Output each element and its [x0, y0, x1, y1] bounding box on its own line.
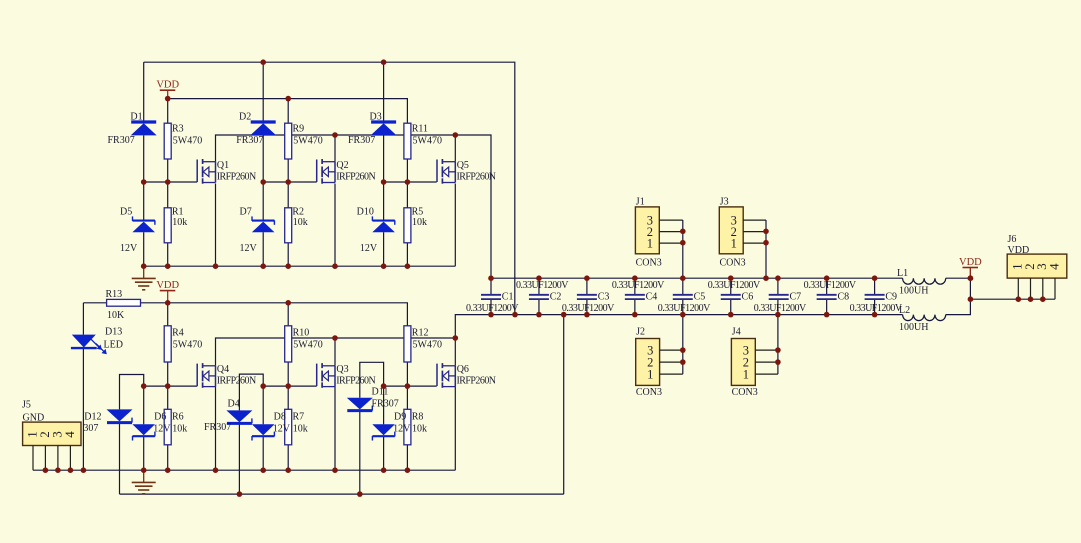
- svg-text:10k: 10k: [412, 424, 427, 435]
- svg-text:12V: 12V: [153, 424, 171, 435]
- junction at (970.4,278.2): [968, 275, 974, 281]
- svg-text:R11: R11: [412, 124, 428, 135]
- junction at (167.7,266.2): [165, 263, 171, 269]
- junction at (143.7,182.0): [141, 179, 147, 185]
- svg-text:D8: D8: [274, 412, 286, 423]
- junction at (1042.8,299.2): [1040, 296, 1046, 302]
- resistor R10 5W470: [285, 326, 323, 362]
- junction at (167.7,386.1): [165, 383, 171, 389]
- svg-text:D4: D4: [228, 399, 240, 410]
- junction at (143.7,266.2): [141, 263, 147, 269]
- junction at (383.6,182.0): [381, 179, 387, 185]
- junction at (407.4,470.2): [405, 467, 411, 473]
- wire top drain-diode rail with right drop to bottom cap rail: [144, 62, 515, 314]
- diode D2 FR307: [236, 112, 276, 147]
- svg-text:12V: 12V: [240, 243, 258, 254]
- wire 10k bottom stub: [287, 243, 289, 266]
- junction at (682.8,231.3): [680, 229, 686, 235]
- wire D12 cathode drop: [119, 423, 121, 495]
- junction at (539.0,278.2): [536, 275, 542, 281]
- svg-text:10K: 10K: [107, 310, 125, 321]
- label R7 10k: [293, 412, 308, 435]
- junction at (455.3,338.0): [453, 335, 459, 341]
- svg-text:0.33UF1200V: 0.33UF1200V: [516, 280, 569, 291]
- wire top cap rail after L1: [946, 277, 971, 279]
- junction at (288.2,386.1): [285, 383, 291, 389]
- junction at (263.2,386.1): [260, 383, 266, 389]
- diode D11 FR307: [347, 387, 399, 411]
- wire C6 stubs: [730, 278, 732, 314]
- wire D11 L-stub: [360, 362, 384, 397]
- wire C8 stubs: [826, 278, 828, 314]
- resistor R9 5W470: [285, 123, 323, 159]
- resistor R11 5W470: [404, 123, 442, 159]
- wire Q2 source stub: [334, 184, 336, 267]
- junction at (239.4,494.1): [237, 491, 243, 497]
- svg-text:0.33UF1200V: 0.33UF1200V: [612, 280, 665, 291]
- wire 5W470 bottom stub: [167, 362, 169, 386]
- wire Q5 source stub: [454, 184, 456, 267]
- ground upper bank: [132, 266, 156, 290]
- resistor R1 10k: [164, 207, 187, 243]
- svg-text:R5: R5: [412, 207, 424, 218]
- svg-text:Q3: Q3: [336, 364, 348, 375]
- capacitor C1 0.33UF1200V: [466, 292, 519, 315]
- junction at (539.0,314.6): [536, 312, 542, 318]
- svg-text:R8: R8: [412, 412, 424, 423]
- svg-text:R7: R7: [293, 412, 305, 423]
- connector J4 CON3: [731, 327, 778, 399]
- led D13: [71, 327, 123, 355]
- junction at (634.9,278.2): [632, 275, 638, 281]
- wire 10k top stub: [287, 182, 289, 208]
- junction at (491,314.6): [488, 312, 494, 318]
- wire D11 cathode drop: [359, 411, 361, 495]
- wire D2 cathode stub: [262, 62, 264, 121]
- zener D8 12V: [252, 412, 291, 441]
- mosfet Q2 IRFP260N: [317, 159, 376, 184]
- junction at (335.0,470.2): [332, 467, 338, 473]
- wire resistor bottom stub: [167, 159, 169, 182]
- svg-text:10k: 10k: [293, 424, 308, 435]
- wire C2 stubs: [538, 278, 540, 314]
- svg-text:FR307: FR307: [204, 422, 231, 433]
- wire zener top stub: [143, 182, 145, 221]
- wire D13 bottom to source row: [82, 348, 84, 470]
- svg-text:Q5: Q5: [457, 160, 469, 171]
- wire R4 top stub: [167, 303, 169, 326]
- junction at (335.0,135.0): [332, 132, 338, 138]
- wire zener bottom stub: [383, 232, 385, 266]
- svg-text:FR307: FR307: [372, 399, 399, 410]
- zener D7 12V: [240, 207, 275, 255]
- wire bottom cap rail: [455, 315, 902, 338]
- wire Q6 source stub: [454, 387, 456, 471]
- wire D12 L-stub: [120, 375, 144, 410]
- svg-text:Q2: Q2: [336, 160, 348, 171]
- svg-text:D7: D7: [240, 207, 252, 218]
- wire Q6 drain stub: [454, 338, 456, 366]
- zener D5 12V: [120, 207, 155, 255]
- capacitor C2 0.33UF1200V: [516, 280, 569, 303]
- wire bottom return: [120, 493, 564, 495]
- junction at (874.6,278.2): [872, 275, 878, 281]
- wire D3 anode to gate row: [383, 135, 385, 182]
- junction at (263.2,266.2): [260, 263, 266, 269]
- wire bottom cap rail after L2 to VDD stub: [946, 268, 971, 315]
- svg-text:GND: GND: [23, 413, 45, 424]
- svg-text:IRFP260N: IRFP260N: [217, 171, 256, 182]
- svg-text:IRFP260N: IRFP260N: [336, 171, 375, 182]
- capacitor C3 0.33UF1200V: [562, 292, 615, 315]
- zener D6 12V: [132, 412, 171, 441]
- junction at (682.8,314.6): [680, 312, 686, 318]
- svg-text:12V: 12V: [393, 424, 411, 435]
- junction at (455.3,135.0): [453, 132, 459, 138]
- junction at (288.2,266.2): [285, 263, 291, 269]
- svg-text:D1: D1: [130, 112, 142, 123]
- junction at (1030.5,299.2): [1028, 296, 1034, 302]
- junction at (70.4,470.2): [68, 467, 74, 473]
- svg-text:J5: J5: [22, 400, 31, 411]
- junction at (383.6,470.2): [381, 467, 387, 473]
- junction at (263.2,182.0): [260, 179, 266, 185]
- junction at (777.9,314.6): [775, 312, 781, 318]
- wire D4 cathode drop: [238, 423, 240, 494]
- svg-text:1: 1: [647, 367, 653, 381]
- junction at (288.2,98.6): [285, 96, 291, 102]
- svg-text:IRFP260N: IRFP260N: [336, 375, 375, 386]
- svg-text:R13: R13: [106, 289, 123, 300]
- wire gate row cell3: [384, 181, 437, 183]
- junction at (970.4,278.2): [968, 275, 974, 281]
- svg-text:5W470: 5W470: [293, 340, 322, 351]
- svg-text:CON3: CON3: [636, 258, 662, 269]
- junction at (682.8,242.7): [680, 240, 686, 246]
- diode D1 FR307: [108, 112, 157, 147]
- capacitor C4 0.33UF1200V: [612, 280, 665, 303]
- wire C3 stubs: [586, 278, 588, 314]
- junction at (407.4,386.1): [405, 383, 411, 389]
- wire gate row cell6: [384, 385, 437, 387]
- wire source row lower bank: [33, 469, 455, 471]
- junction at (288.2,182.0): [285, 179, 291, 185]
- power VDD right: [959, 257, 982, 278]
- svg-text:Q4: Q4: [217, 364, 229, 375]
- capacitor C7 0.33UF1200V: [754, 292, 807, 315]
- svg-text:R2: R2: [292, 207, 304, 218]
- junction at (215.5,470.2): [213, 467, 219, 473]
- svg-text:R10: R10: [293, 328, 310, 339]
- wire lower 10k stubs: [167, 386, 169, 470]
- junction at (1018.3,299.2): [1016, 296, 1022, 302]
- svg-text:D6: D6: [154, 412, 166, 423]
- svg-text:C2: C2: [550, 292, 562, 303]
- junction at (335.0,266.2): [332, 263, 338, 269]
- wire 5W470 bottom stub: [406, 362, 408, 386]
- mosfet Q6 IRFP260N: [437, 363, 496, 388]
- connector J1 CON3: [635, 197, 682, 269]
- svg-text:FR307: FR307: [348, 135, 375, 146]
- svg-text:C4: C4: [646, 292, 658, 303]
- svg-text:L1: L1: [897, 268, 908, 279]
- svg-text:5W470: 5W470: [293, 136, 322, 147]
- wire zener bottom stub: [143, 232, 145, 266]
- svg-text:4: 4: [1046, 263, 1061, 270]
- capacitor C8 0.33UF1200V: [804, 280, 857, 303]
- svg-text:D10: D10: [357, 207, 374, 218]
- svg-text:D11: D11: [372, 387, 389, 398]
- junction at (383.6,266.2): [381, 263, 387, 269]
- connector J5 GND: [22, 400, 81, 471]
- junction at (515,314.6): [512, 312, 518, 318]
- resistor R13 10K: [106, 289, 141, 321]
- svg-text:LED: LED: [104, 340, 123, 351]
- svg-text:IRFP260N: IRFP260N: [457, 171, 496, 182]
- resistor R7 10k: [285, 409, 292, 445]
- wire bottom-rail drop to bottom wire: [563, 315, 565, 495]
- wire lower 10k stubs: [287, 386, 289, 470]
- svg-text:C9: C9: [885, 292, 897, 303]
- svg-text:0.33UF1200V: 0.33UF1200V: [708, 280, 761, 291]
- junction at (263.2,62.2): [260, 59, 266, 65]
- wire 10k top stub: [167, 182, 169, 208]
- svg-text:D5: D5: [120, 207, 132, 218]
- wire gate row cell5: [263, 385, 317, 387]
- wire Q5 drain stub: [454, 135, 456, 162]
- junction at (288.2,302.8): [285, 300, 291, 306]
- svg-text:VDD: VDD: [156, 280, 179, 291]
- junction at (682.8,278.2): [680, 275, 686, 281]
- wire D1 anode to gate row: [143, 135, 145, 182]
- wire C7-J4 column: [777, 278, 779, 374]
- mosfet Q4 IRFP260N: [197, 363, 256, 388]
- svg-text:C1: C1: [502, 292, 514, 303]
- wire Q1 source stub: [215, 184, 217, 267]
- wire zener top stub: [262, 182, 264, 221]
- mosfet Q3 IRFP260N: [317, 363, 376, 388]
- svg-text:R12: R12: [412, 328, 429, 339]
- mosfet Q5 IRFP260N: [437, 159, 496, 184]
- wire resistor bottom stub: [287, 159, 289, 182]
- svg-text:12V: 12V: [360, 243, 378, 254]
- junction at (407.4,266.2): [405, 263, 411, 269]
- junction at (57.9,470.2): [55, 467, 61, 473]
- svg-text:C7: C7: [790, 292, 802, 303]
- svg-text:1: 1: [647, 236, 653, 250]
- junction at (766,278.2): [763, 275, 769, 281]
- svg-text:12V: 12V: [120, 243, 138, 254]
- diode D12 FR307: [83, 409, 132, 434]
- svg-text:100UH: 100UH: [899, 286, 928, 297]
- wire C4 stubs: [634, 278, 636, 314]
- svg-text:12V: 12V: [273, 424, 291, 435]
- wire lower zener stub: [262, 386, 264, 470]
- svg-text:5W470: 5W470: [173, 136, 202, 147]
- wire 5W470 bottom stub: [287, 362, 289, 386]
- wire C9 stubs: [874, 278, 876, 314]
- junction at (586.9,278.2): [584, 275, 590, 281]
- junction at (167.7,182.0): [165, 179, 171, 185]
- label R6 10k: [172, 412, 187, 435]
- resistor R4 5W470: [164, 326, 202, 362]
- junction at (491,278.2): [488, 275, 494, 281]
- junction at (874.6,314.6): [872, 312, 878, 318]
- wire resistor bottom stub: [406, 159, 408, 182]
- wire J3 column: [765, 220, 767, 278]
- power VDD upper: [156, 80, 179, 99]
- svg-text:0.33UF1200V: 0.33UF1200V: [754, 303, 807, 314]
- svg-text:J4: J4: [732, 327, 741, 338]
- wire VDD rail (upper bank) to R11 top: [168, 99, 408, 124]
- capacitor C6 0.33UF1200V: [708, 280, 761, 303]
- junction at (167.7,302.8): [165, 300, 171, 306]
- wire gate row cell1: [144, 181, 198, 183]
- wire R10 top stub: [287, 303, 289, 326]
- wire D4 L-stub: [239, 374, 263, 410]
- svg-text:D13: D13: [105, 327, 122, 338]
- junction at (826.7,278.2): [824, 275, 830, 281]
- junction at (407.4,182.0): [405, 179, 411, 185]
- svg-text:10k: 10k: [293, 217, 308, 228]
- connector J2 CON3: [636, 327, 683, 399]
- junction at (263.2,470.2): [260, 467, 266, 473]
- svg-text:FR307: FR307: [236, 135, 263, 146]
- wire source row upper bank: [144, 265, 456, 267]
- wire D1 cathode stub: [143, 62, 145, 121]
- svg-text:5W470: 5W470: [173, 340, 202, 351]
- junction at (970.4,299.2): [968, 296, 974, 302]
- diode D4 FR307: [204, 399, 252, 434]
- svg-text:VDD: VDD: [959, 257, 982, 268]
- wire J1-C5-J2 column: [682, 220, 684, 374]
- junction at (167.7,98.6): [165, 96, 171, 102]
- junction at (359.8,494.1): [357, 491, 363, 497]
- wire Q4 source stub: [215, 387, 217, 471]
- svg-text:307: 307: [83, 423, 98, 434]
- wire lower zener stub: [383, 386, 385, 470]
- svg-text:CON3: CON3: [732, 387, 758, 398]
- wire zener top stub: [383, 182, 385, 221]
- junction at (335.0,338.0): [332, 335, 338, 341]
- svg-text:5W470: 5W470: [413, 136, 442, 147]
- wire gate row cell4: [144, 385, 198, 387]
- junction at (45.4,470.2): [43, 467, 49, 473]
- junction at (682.8,362.1): [680, 359, 686, 365]
- diode D3 FR307: [348, 112, 397, 147]
- svg-text:IRFP260N: IRFP260N: [457, 375, 496, 386]
- connector J3 CON3: [719, 197, 766, 269]
- resistor R3 5W470: [164, 123, 202, 159]
- wire lower 10k stubs: [406, 386, 408, 470]
- svg-text:R1: R1: [172, 207, 184, 218]
- wire Q2 drain stub: [334, 135, 336, 162]
- junction at (215.5,266.2): [213, 263, 219, 269]
- inductor L2: [899, 305, 946, 333]
- svg-text:CON3: CON3: [720, 258, 746, 269]
- svg-text:C5: C5: [694, 292, 706, 303]
- wire R9 top stub: [287, 99, 289, 124]
- resistor R12 5W470: [404, 326, 442, 362]
- wire gate row cell2: [263, 181, 317, 183]
- wire Q3 drain stub: [334, 338, 336, 366]
- svg-text:J3: J3: [720, 197, 729, 208]
- junction at (682.8,350.1): [680, 347, 686, 353]
- svg-text:J6: J6: [1008, 234, 1017, 245]
- wire VDD rail (lower bank) to R12 top: [83, 303, 407, 326]
- junction at (777.9,362.1): [775, 359, 781, 365]
- wire lower zener stub: [143, 386, 145, 470]
- capacitor C5 0.33UF1200V: [658, 292, 711, 315]
- svg-text:1: 1: [731, 236, 737, 250]
- wire C1 stubs: [490, 278, 492, 314]
- svg-text:Q1: Q1: [217, 160, 229, 171]
- wire 10k bottom stub: [406, 243, 408, 266]
- svg-text:10k: 10k: [172, 424, 187, 435]
- junction at (563.7,314.6): [561, 312, 567, 318]
- wire J6 pin bus: [970, 298, 1055, 300]
- wire zener bottom stub: [262, 232, 264, 266]
- wire D13 top stub: [82, 303, 84, 335]
- wire lower drain bus: [216, 338, 456, 366]
- resistor R5 10k: [404, 207, 427, 243]
- junction at (383.6,62.2): [381, 59, 387, 65]
- junction at (826.7,314.6): [824, 312, 830, 318]
- power VDD lower: [156, 280, 179, 303]
- svg-text:10k: 10k: [172, 217, 187, 228]
- wire Q3 source stub: [334, 387, 336, 471]
- junction at (143.7,470.2): [141, 467, 147, 473]
- svg-text:FR307: FR307: [108, 135, 135, 146]
- svg-text:D2: D2: [239, 112, 251, 123]
- svg-text:D9: D9: [394, 412, 406, 423]
- svg-text:IRFP260N: IRFP260N: [217, 375, 256, 386]
- svg-text:VDD: VDD: [1008, 245, 1030, 256]
- svg-text:1: 1: [743, 367, 749, 381]
- svg-text:R3: R3: [172, 124, 184, 135]
- mosfet Q1 IRFP260N: [197, 159, 256, 184]
- label R8 10k: [412, 412, 427, 435]
- junction at (83.4,470.2): [81, 467, 87, 473]
- resistor R2 10k: [285, 207, 308, 243]
- svg-text:R4: R4: [172, 328, 184, 339]
- junction at (766,242.7): [763, 240, 769, 246]
- junction at (167.7,470.2): [165, 467, 171, 473]
- wire D2 anode to gate row: [262, 135, 264, 182]
- junction at (288.2,470.2): [285, 467, 291, 473]
- wire 10k bottom stub: [167, 243, 169, 266]
- junction at (383.6,386.1): [381, 383, 387, 389]
- resistor R6 10k: [164, 409, 171, 445]
- svg-text:5W470: 5W470: [413, 340, 442, 351]
- svg-text:D12: D12: [84, 412, 101, 423]
- connector J6 VDD: [1007, 234, 1067, 299]
- junction at (777.9,278.2): [775, 275, 781, 281]
- svg-text:Q6: Q6: [457, 364, 469, 375]
- zener D9 12V: [372, 412, 411, 441]
- wire upper drain bus to cap rail: [216, 135, 492, 278]
- capacitor C9 0.33UF1200V: [850, 292, 903, 315]
- svg-text:C6: C6: [742, 292, 754, 303]
- svg-text:10k: 10k: [412, 217, 427, 228]
- svg-text:C8: C8: [837, 292, 849, 303]
- svg-text:R9: R9: [293, 124, 305, 135]
- resistor R8 10k: [404, 409, 411, 445]
- junction at (730.8,278.2): [728, 275, 734, 281]
- wire top cap rail: [491, 277, 903, 279]
- ground lower bank: [132, 470, 156, 494]
- svg-text:0.33UF1200V: 0.33UF1200V: [804, 280, 857, 291]
